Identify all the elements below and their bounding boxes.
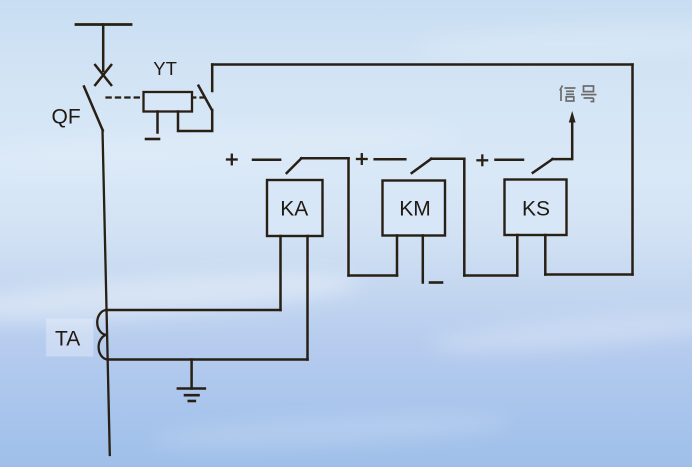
wire KM right stub bbox=[422, 236, 425, 283]
current transformer TA arcs bbox=[97, 310, 107, 360]
trip coil YT bbox=[144, 92, 193, 112]
wire KS right stub bbox=[544, 235, 547, 275]
wire KA contact right bbox=[301, 157, 348, 160]
wire TA secondary bottom bbox=[108, 358, 308, 361]
breaker QF X symbol bbox=[95, 65, 111, 85]
relay KA bbox=[267, 180, 323, 236]
contact KA blade bbox=[287, 158, 302, 173]
wire right vertical bbox=[631, 65, 634, 275]
label TA highlight box bbox=[47, 319, 94, 356]
wire YT minus stub bbox=[156, 112, 159, 133]
wire feeder bbox=[103, 130, 110, 455]
mechanical linkage dashed QF to YT bbox=[107, 96, 204, 98]
wire ground stub bbox=[190, 360, 193, 389]
minus terminal YT bbox=[146, 138, 159, 141]
svg-text:KS: KS bbox=[522, 198, 550, 221]
wire KM contact left bbox=[375, 158, 406, 161]
wire KS contact bend bbox=[553, 120, 573, 159]
minus terminal KM bbox=[430, 281, 442, 284]
wire KM contact right bbox=[431, 158, 464, 161]
wire KM-KS vertical bbox=[463, 159, 466, 276]
svg-text:TA: TA bbox=[55, 328, 80, 351]
wire KM left stub bbox=[396, 236, 399, 276]
plus terminal KA bbox=[227, 155, 237, 165]
wire KA contact left bbox=[253, 159, 280, 162]
svg-text:QF: QF bbox=[52, 106, 81, 129]
wire bottom KA-KM bbox=[349, 274, 398, 277]
relay KM bbox=[383, 181, 446, 236]
ground symbol bbox=[178, 389, 205, 402]
svg-text:KA: KA bbox=[280, 198, 308, 221]
svg-text:KM: KM bbox=[399, 198, 431, 221]
wire KA-KM vertical bbox=[347, 158, 350, 275]
wire KS contact left bbox=[496, 158, 524, 161]
wire KA left stub bbox=[279, 236, 282, 310]
wire aux switch fixed terminal bbox=[211, 65, 214, 92]
breaker QF blade bbox=[84, 87, 103, 131]
busbar bbox=[76, 23, 131, 26]
aux switch QF blade bbox=[199, 86, 212, 110]
wire TA secondary top bbox=[106, 309, 280, 312]
plus terminal KS bbox=[478, 156, 488, 166]
svg-text:YT: YT bbox=[153, 58, 177, 79]
contact KS blade bbox=[533, 159, 553, 173]
plus terminal KM bbox=[357, 154, 367, 164]
wire bottom KM-KS bbox=[464, 274, 517, 277]
label 信号 signal (hand-drawn glyphs) bbox=[560, 86, 597, 102]
wire KS left stub bbox=[516, 235, 519, 276]
wire bottom right bbox=[545, 273, 632, 276]
relay KS bbox=[505, 180, 567, 236]
wire KA right stub bbox=[306, 236, 309, 360]
contact KM blade bbox=[412, 159, 432, 173]
arrowhead signal bbox=[569, 111, 576, 123]
wire top horizontal bbox=[212, 63, 632, 66]
wire bus drop bbox=[102, 25, 105, 72]
wire YT to aux switch bbox=[178, 110, 212, 131]
